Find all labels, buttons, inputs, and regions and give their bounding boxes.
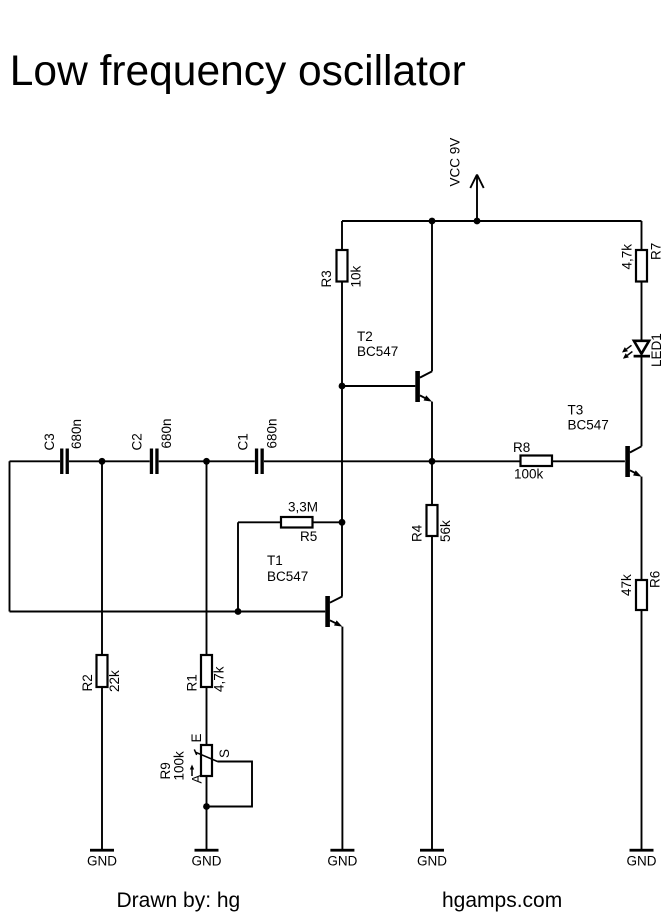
svg-text:4,7k: 4,7k xyxy=(211,666,226,692)
svg-text:VCC 9V: VCC 9V xyxy=(448,138,463,187)
svg-text:4,7k: 4,7k xyxy=(619,244,634,270)
capacitor C3 xyxy=(42,419,84,474)
svg-text:T1: T1 xyxy=(267,553,283,568)
wire R3 top xyxy=(341,221,343,250)
diode LED1 xyxy=(622,333,664,367)
svg-text:GND: GND xyxy=(87,854,117,869)
svg-text:C3: C3 xyxy=(42,433,57,450)
node junction R5 branch to base line xyxy=(235,608,242,615)
svg-text:100k: 100k xyxy=(514,467,544,482)
svg-text:R2: R2 xyxy=(80,674,95,691)
svg-text:GND: GND xyxy=(417,854,447,869)
ground GND under R9 xyxy=(192,849,222,869)
wire T1 emitter to GND xyxy=(341,627,343,849)
ground GND under R6 xyxy=(627,849,657,869)
wire R5 left leg xyxy=(238,521,281,523)
wire R8 to T3 base xyxy=(552,460,625,462)
svg-text:BC547: BC547 xyxy=(568,418,609,433)
svg-text:R3: R3 xyxy=(319,270,334,287)
svg-text:A: A xyxy=(190,774,205,783)
node junction VCC rail at T2 collector xyxy=(429,218,436,225)
wire cap row segment left edge to C3 xyxy=(10,460,61,462)
resistor R7 xyxy=(619,243,663,282)
resistor R3 xyxy=(319,250,364,288)
wire top rail xyxy=(342,220,642,222)
svg-text:LED1: LED1 xyxy=(649,333,664,367)
wire R4 bottom to GND xyxy=(431,536,433,849)
wire LED1 to T3 collector xyxy=(641,357,643,446)
node junction wiper to bottom xyxy=(203,803,210,810)
wire pot bottom xyxy=(206,776,208,849)
svg-text:BC547: BC547 xyxy=(357,344,398,359)
wire mid vertical to T1 collector xyxy=(341,386,343,596)
wire R1 bottom to pot E xyxy=(206,687,208,745)
svg-text:GND: GND xyxy=(327,854,357,869)
wire R5 right leg xyxy=(313,521,343,523)
wire pot wiper S loop xyxy=(207,762,253,807)
wire R1 top xyxy=(206,461,208,655)
svg-text:680n: 680n xyxy=(264,418,279,448)
svg-text:T3: T3 xyxy=(568,403,584,418)
wire R3 bottom to T2 base node xyxy=(341,282,343,387)
svg-text:R6: R6 xyxy=(648,571,663,588)
resistor R2 xyxy=(80,655,122,692)
node junction R2 branch xyxy=(99,458,106,465)
svg-text:Drawn by: hg: Drawn by: hg xyxy=(117,889,241,912)
capacitor C1 xyxy=(235,418,279,474)
node junction R5 to T1 collector line xyxy=(339,519,346,526)
svg-text:GND: GND xyxy=(192,854,222,869)
svg-text:R8: R8 xyxy=(513,440,530,455)
wire C3 to C2 xyxy=(69,460,150,462)
capacitor C2 xyxy=(129,418,174,474)
svg-text:47k: 47k xyxy=(619,574,634,596)
svg-text:S: S xyxy=(217,749,232,758)
svg-text:Low frequency oscillator: Low frequency oscillator xyxy=(10,48,466,95)
svg-text:100k: 100k xyxy=(171,751,186,781)
node junction R1 branch xyxy=(203,458,210,465)
wire T2 base xyxy=(342,385,415,387)
svg-text:56k: 56k xyxy=(438,520,453,542)
svg-text:R5: R5 xyxy=(300,529,317,544)
svg-text:680n: 680n xyxy=(159,418,174,448)
svg-text:10k: 10k xyxy=(349,265,364,287)
svg-text:C1: C1 xyxy=(235,433,250,450)
svg-text:C2: C2 xyxy=(129,433,144,450)
svg-text:T2: T2 xyxy=(357,329,373,344)
transistor T1 BC547 xyxy=(267,553,342,627)
wire T2 emitter down xyxy=(431,402,433,505)
wire left loop horizontal to T1 base xyxy=(10,611,326,613)
svg-text:680n: 680n xyxy=(69,419,84,449)
resistor R5 xyxy=(281,500,318,545)
wire R2 bottom to GND xyxy=(101,687,103,849)
svg-text:R1: R1 xyxy=(184,674,199,691)
transistor T3 BC547 xyxy=(568,403,642,478)
resistor R4 xyxy=(410,505,454,542)
wire R6 bottom to GND xyxy=(641,610,643,849)
resistor R1 xyxy=(184,655,226,692)
transistor T2 BC547 xyxy=(357,329,432,402)
wire T3 emitter down xyxy=(641,477,643,580)
svg-text:R4: R4 xyxy=(410,524,425,542)
svg-text:BC547: BC547 xyxy=(267,569,308,584)
svg-text:E: E xyxy=(189,733,204,742)
ground GND under R4 xyxy=(417,849,447,869)
potentiometer R9 100k xyxy=(158,733,232,783)
svg-text:R7: R7 xyxy=(648,243,663,260)
svg-text:GND: GND xyxy=(627,854,657,869)
node junction T2 emitter to row xyxy=(429,458,436,465)
svg-text:hgamps.com: hgamps.com xyxy=(442,889,562,912)
wire T2 collector xyxy=(431,221,433,371)
ground GND under R2 xyxy=(87,849,117,869)
wire C2 to C1 xyxy=(159,460,255,462)
wire R7 to LED1 xyxy=(641,282,643,341)
svg-text:3,3M: 3,3M xyxy=(288,500,318,515)
wire left loop vertical xyxy=(9,461,11,611)
power VCC 9V symbol xyxy=(448,138,484,221)
node junction VCC arrow to rail xyxy=(474,218,481,225)
resistor R6 xyxy=(619,571,663,610)
resistor R8 xyxy=(513,440,552,482)
wire R2 top xyxy=(101,461,103,655)
svg-text:22k: 22k xyxy=(107,670,122,692)
node junction T2 base xyxy=(339,383,346,390)
ground GND under T1 xyxy=(327,849,357,869)
wire C1 to R8 xyxy=(264,460,521,462)
wire rail right corner down xyxy=(641,221,643,250)
